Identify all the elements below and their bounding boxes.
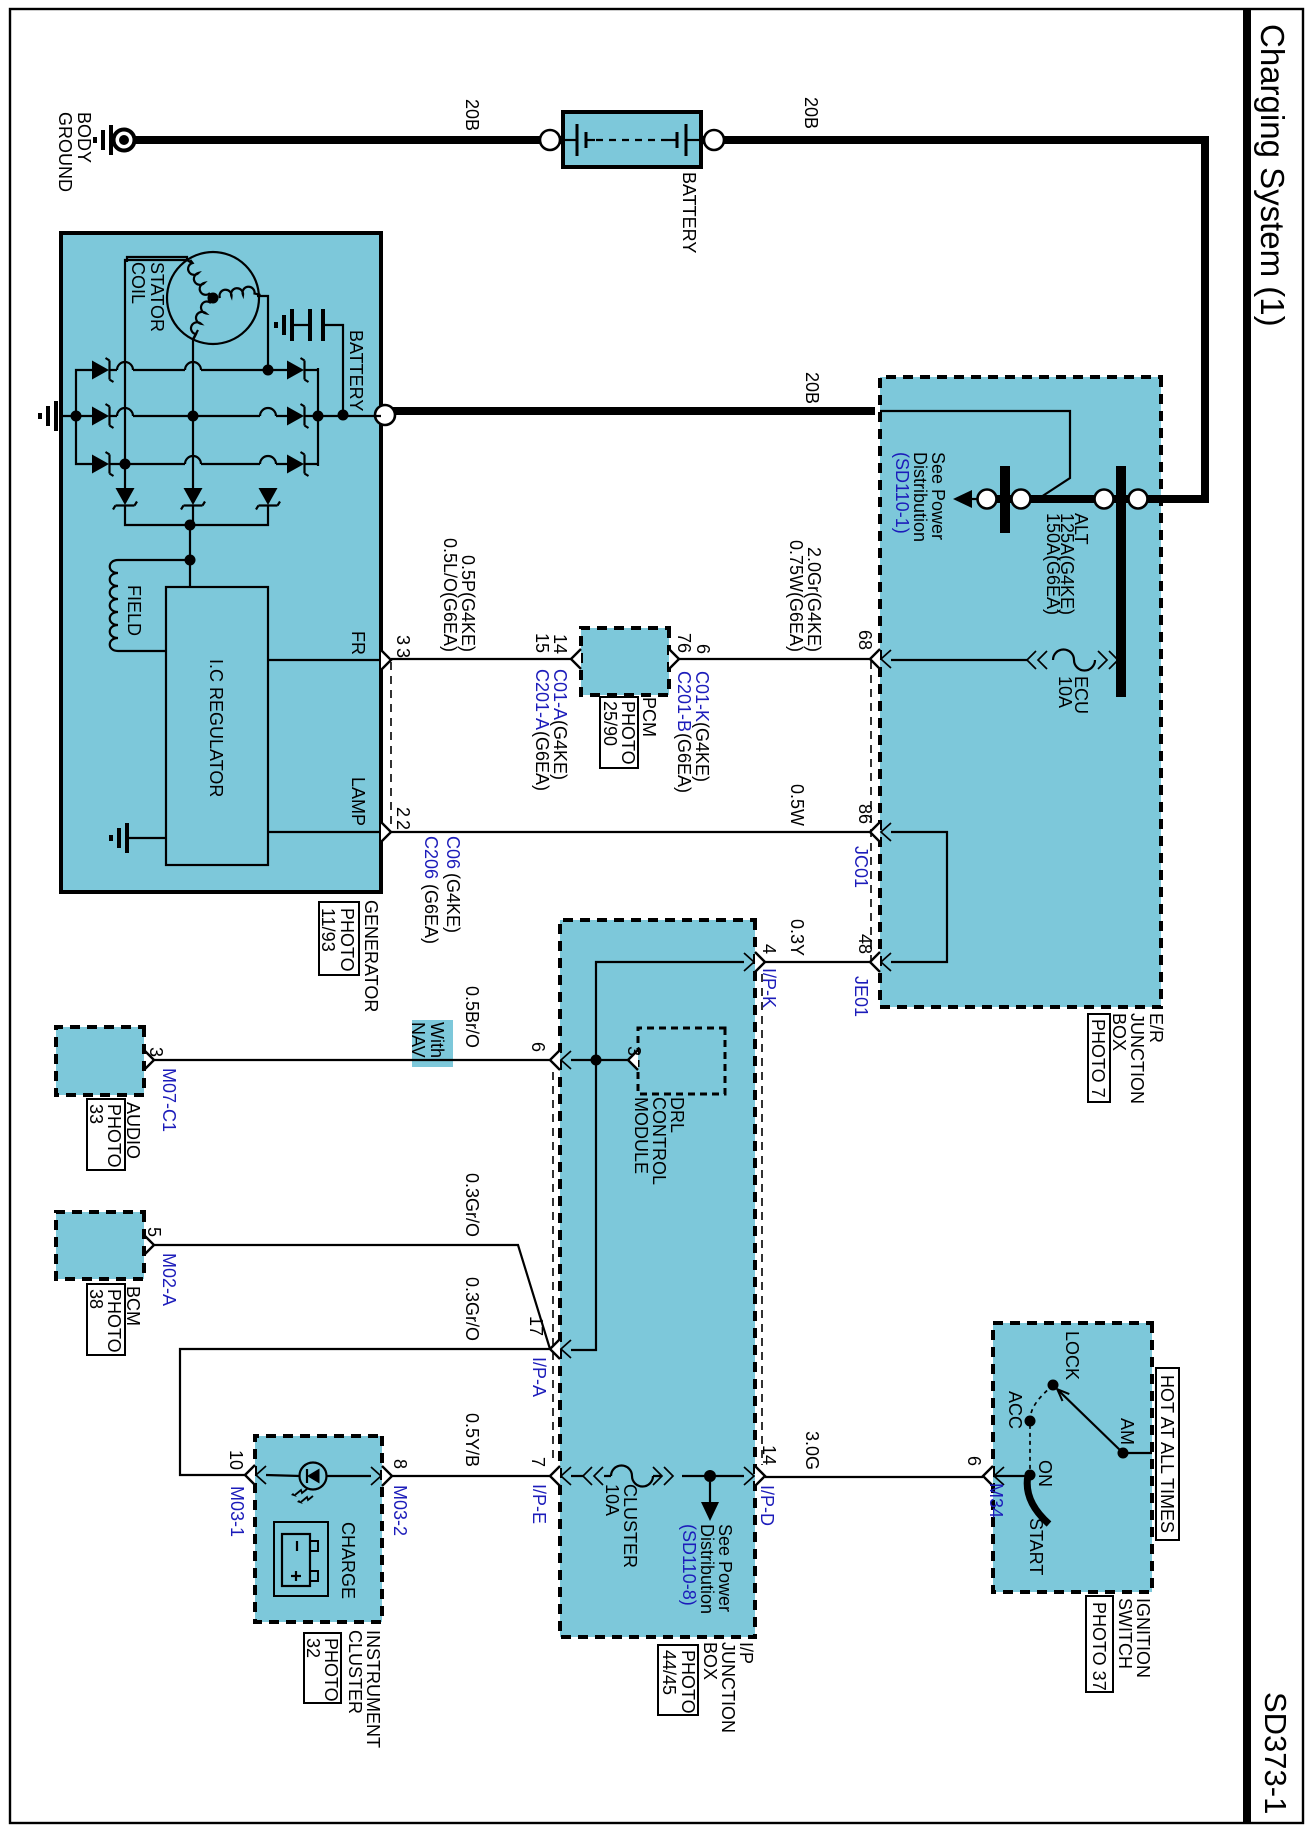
- svg-text:2.0Gr(G4KE): 2.0Gr(G4KE): [804, 547, 824, 652]
- svg-text:C201-A: C201-A: [532, 669, 552, 730]
- svg-text:M03-2: M03-2: [390, 1485, 410, 1536]
- svg-text:(G6EA): (G6EA): [674, 733, 694, 793]
- svg-text:HOT AT ALL TIMES: HOT AT ALL TIMES: [1157, 1375, 1177, 1533]
- svg-text:BOX: BOX: [1109, 1013, 1129, 1051]
- svg-text:0.5Y/B: 0.5Y/B: [462, 1413, 482, 1467]
- svg-text:C206: C206: [421, 836, 441, 879]
- svg-text:0.3Y: 0.3Y: [787, 919, 807, 956]
- svg-text:PHOTO 7: PHOTO 7: [1088, 1019, 1108, 1098]
- svg-text:86: 86: [855, 804, 875, 824]
- svg-text:BOX: BOX: [700, 1642, 720, 1680]
- svg-text:(G6EA): (G6EA): [421, 884, 441, 944]
- svg-text:0.75W(G6EA): 0.75W(G6EA): [786, 540, 806, 652]
- svg-text:PHOTO: PHOTO: [337, 908, 357, 972]
- svg-text:COIL: COIL: [128, 262, 148, 304]
- svg-text:PHOTO 37: PHOTO 37: [1089, 1602, 1109, 1691]
- svg-text:I/P-D: I/P-D: [757, 1485, 777, 1526]
- svg-text:With: With: [427, 1022, 447, 1058]
- svg-text:DRL: DRL: [667, 1097, 687, 1133]
- svg-text:CLUSTER: CLUSTER: [620, 1484, 640, 1568]
- svg-text:CHARGE: CHARGE: [338, 1522, 358, 1599]
- svg-text:20B: 20B: [462, 99, 482, 131]
- svg-text:25/90: 25/90: [600, 701, 620, 746]
- svg-text:(G6EA): (G6EA): [532, 731, 552, 791]
- svg-text:LAMP: LAMP: [348, 777, 368, 826]
- svg-text:I/P-K: I/P-K: [759, 968, 779, 1008]
- svg-text:(SD110-8): (SD110-8): [679, 1524, 699, 1606]
- svg-text:33: 33: [86, 1104, 106, 1124]
- svg-text:GROUND: GROUND: [55, 112, 75, 192]
- svg-text:Distribution: Distribution: [697, 1524, 717, 1614]
- svg-text:32: 32: [303, 1638, 323, 1658]
- svg-text:7: 7: [528, 1457, 548, 1467]
- svg-text:I.C REGULATOR: I.C REGULATOR: [206, 659, 226, 797]
- svg-text:0.3Gr/O: 0.3Gr/O: [462, 1277, 482, 1341]
- svg-text:C01-A: C01-A: [550, 669, 570, 720]
- svg-text:PHOTO: PHOTO: [678, 1650, 698, 1714]
- svg-text:M34: M34: [986, 1483, 1006, 1518]
- svg-text:CLUSTER: CLUSTER: [345, 1630, 365, 1714]
- svg-text:IGNITION: IGNITION: [1133, 1598, 1153, 1678]
- svg-text:M02-A: M02-A: [159, 1253, 179, 1306]
- svg-text:0.5L/O(G6EA): 0.5L/O(G6EA): [440, 538, 460, 652]
- svg-text:3.0G: 3.0G: [802, 1431, 822, 1470]
- svg-text:2: 2: [393, 807, 413, 817]
- svg-text:0.5Br/O: 0.5Br/O: [462, 986, 482, 1048]
- svg-text:11/93: 11/93: [318, 908, 338, 952]
- svg-text:SD373-1: SD373-1: [1258, 1692, 1293, 1814]
- svg-text:I/P-A: I/P-A: [529, 1357, 549, 1397]
- svg-text:MODULE: MODULE: [631, 1097, 651, 1174]
- svg-text:6: 6: [693, 644, 713, 654]
- svg-text:SWITCH: SWITCH: [1115, 1598, 1135, 1669]
- svg-text:150A(G6EA): 150A(G6EA): [1043, 513, 1063, 615]
- svg-text:NAVI: NAVI: [408, 1022, 428, 1063]
- svg-text:JC01: JC01: [851, 846, 871, 888]
- svg-text:ACC: ACC: [1005, 1391, 1025, 1429]
- svg-text:ON: ON: [1035, 1460, 1055, 1487]
- svg-text:0.3Gr/O: 0.3Gr/O: [462, 1173, 482, 1237]
- svg-text:C201-B: C201-B: [674, 671, 694, 732]
- svg-text:48: 48: [855, 934, 875, 954]
- svg-text:6: 6: [528, 1042, 548, 1052]
- svg-text:3: 3: [393, 635, 413, 645]
- svg-text:See Power: See Power: [715, 1524, 735, 1612]
- svg-text:76: 76: [674, 633, 694, 653]
- svg-text:PHOTO: PHOTO: [104, 1104, 124, 1168]
- svg-text:3: 3: [393, 648, 413, 658]
- svg-text:M07-C1: M07-C1: [159, 1068, 179, 1132]
- svg-text:(G4KE): (G4KE): [550, 720, 570, 780]
- svg-text:5: 5: [144, 1227, 164, 1237]
- svg-text:BATTERY: BATTERY: [679, 172, 699, 253]
- svg-text:AM: AM: [1117, 1418, 1137, 1445]
- svg-text:FR: FR: [348, 631, 368, 655]
- svg-text:0.5P(G4KE): 0.5P(G4KE): [458, 555, 478, 652]
- svg-text:PHOTO: PHOTO: [618, 701, 638, 765]
- svg-text:STATOR: STATOR: [147, 262, 167, 332]
- svg-text:3: 3: [624, 1046, 644, 1056]
- svg-text:2: 2: [393, 820, 413, 830]
- svg-text:JE01: JE01: [851, 976, 871, 1017]
- svg-text:38: 38: [86, 1289, 106, 1309]
- svg-text:C01-K: C01-K: [692, 671, 712, 722]
- svg-text:10: 10: [226, 1450, 246, 1470]
- svg-text:JUNCTION: JUNCTION: [1127, 1013, 1147, 1104]
- svg-text:PCM: PCM: [639, 697, 659, 737]
- svg-text:3: 3: [146, 1047, 166, 1057]
- svg-text:C06: C06: [443, 836, 463, 869]
- svg-text:14: 14: [759, 1445, 779, 1465]
- svg-text:GENERATOR: GENERATOR: [361, 900, 381, 1012]
- svg-text:10A: 10A: [602, 1484, 622, 1516]
- svg-text:44/45: 44/45: [659, 1650, 679, 1695]
- svg-text:I/P: I/P: [736, 1642, 756, 1664]
- svg-text:0.5W: 0.5W: [787, 784, 807, 826]
- svg-text:4: 4: [759, 944, 779, 954]
- svg-text:Charging System (1): Charging System (1): [1254, 24, 1291, 327]
- svg-text:6: 6: [964, 1456, 984, 1466]
- svg-text:LOCK: LOCK: [1062, 1331, 1082, 1380]
- svg-text:PHOTO: PHOTO: [104, 1289, 124, 1353]
- svg-text:14: 14: [550, 634, 570, 654]
- svg-text:M03-1: M03-1: [227, 1486, 247, 1537]
- svg-text:BATTERY: BATTERY: [346, 330, 366, 411]
- svg-text:Distribution: Distribution: [910, 452, 930, 542]
- svg-text:BODY: BODY: [74, 112, 94, 163]
- svg-text:JUNCTION: JUNCTION: [718, 1642, 738, 1733]
- svg-text:20B: 20B: [801, 97, 821, 129]
- svg-text:(G4KE): (G4KE): [692, 722, 712, 782]
- svg-text:10A: 10A: [1055, 676, 1075, 708]
- svg-text:FIELD: FIELD: [124, 585, 144, 636]
- svg-text:See Power: See Power: [928, 452, 948, 540]
- svg-text:15: 15: [532, 633, 552, 653]
- svg-text:CONTROL: CONTROL: [649, 1097, 669, 1185]
- svg-text:INSTRUMENT: INSTRUMENT: [363, 1630, 383, 1748]
- svg-text:I/P-E: I/P-E: [529, 1484, 549, 1524]
- svg-text:START: START: [1026, 1518, 1046, 1575]
- svg-text:(G4KE): (G4KE): [443, 873, 463, 933]
- svg-text:PHOTO: PHOTO: [321, 1638, 341, 1702]
- svg-text:E/R: E/R: [1146, 1013, 1166, 1043]
- svg-text:8: 8: [390, 1459, 410, 1469]
- svg-text:(SD110-1): (SD110-1): [892, 452, 912, 534]
- svg-text:20B: 20B: [802, 372, 822, 404]
- svg-text:68: 68: [855, 630, 875, 650]
